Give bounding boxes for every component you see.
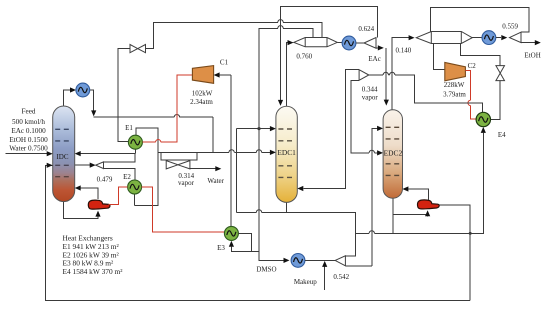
arrow into 0.140 — [409, 35, 415, 40]
wire cooler to 0.624 — [356, 42, 364, 44]
wire EDC2 reboiler return — [408, 189, 428, 200]
svg-text:IDC: IDC — [56, 153, 68, 161]
wire drum reflux to EDC1 feed recycle — [259, 28, 313, 251]
splitter 0.479 — [96, 162, 104, 169]
arrow condensate down — [91, 110, 96, 116]
svg-text:228kW: 228kW — [444, 81, 465, 89]
arrow makeup up — [322, 261, 327, 267]
drum splitter 0.760 — [294, 38, 338, 47]
wire recycle return into IDC — [46, 165, 471, 300]
wire mixer input2 / EDC2 feed — [351, 80, 377, 153]
drum splitter 0.140 — [416, 32, 472, 44]
wire bottoms header y=232.9 — [355, 232, 470, 234]
wire water product — [190, 168, 216, 170]
wire E1 feed branch — [118, 117, 128, 141]
svg-text:C2: C2 — [468, 62, 477, 70]
cooler after 0.760 (blue) — [342, 36, 356, 50]
wire EDC2 vapor riser to 0.140 — [392, 38, 409, 110]
svg-text:vapor: vapor — [178, 179, 195, 187]
arrow into DMSO cooler — [284, 258, 290, 263]
wire 0.140 to cooler2 — [472, 37, 482, 39]
arrow into E3 bottom — [229, 241, 234, 247]
wire C1 suction riser from E3 — [230, 75, 232, 226]
wire 0.140 bottom left to C2 — [434, 44, 445, 70]
svg-text:vapor: vapor — [362, 93, 379, 101]
tray EDC1 1 — [278, 128, 294, 130]
wire V2 vertical x=236.3 — [235, 129, 237, 213]
svg-text:C1: C1 — [220, 58, 229, 66]
tray EDC1 2 — [278, 140, 294, 142]
arrow L1 into EDC1 — [270, 150, 276, 155]
svg-text:EtOH: EtOH — [524, 51, 540, 59]
arrow into IDC reboiler — [95, 211, 100, 217]
node junction 470 — [469, 232, 472, 235]
wire EDC1 bottoms stub — [286, 202, 288, 212]
wire valve to 0.760 drum top — [146, 22, 323, 48]
arrow feed into IDC — [47, 151, 53, 156]
column EDC1 — [276, 106, 297, 202]
column EDC2 — [383, 110, 402, 199]
splitter 0.559 — [510, 32, 522, 42]
svg-text:EAc 0.1000: EAc 0.1000 — [11, 127, 46, 135]
wire IDC overhead to condenser — [64, 90, 75, 107]
arrow into EDC1 right — [297, 186, 303, 191]
valve V1 (IDC overhead) — [130, 45, 146, 53]
svg-text:E4 1584 kW 370 m²: E4 1584 kW 370 m² — [63, 267, 124, 276]
arrow L2 into IDC right — [75, 151, 81, 156]
svg-text:Feed: Feed — [22, 107, 36, 115]
wire mixer input1 from EDC1 return — [303, 70, 359, 189]
arrow into C1 — [214, 72, 220, 77]
arrow EAc — [378, 45, 384, 50]
red wire E1 to C1 — [142, 75, 192, 142]
arrow water — [215, 166, 221, 171]
wire EDC2 reboiler feed — [393, 214, 428, 216]
wire EAc down to EDC2 top — [385, 48, 387, 102]
arrow feed into EDC1 at 127.7 — [270, 126, 276, 131]
svg-text:EtOH 0.1500: EtOH 0.1500 — [9, 136, 48, 144]
wire L1 main feed line to EDC1 — [158, 151, 272, 153]
arrow side draw into 0.479 — [90, 163, 96, 168]
tray IDC 4 — [55, 176, 72, 178]
arrow into EDC2 right — [402, 186, 408, 191]
wire E3 bottom U-route to DMSO line — [231, 246, 283, 260]
reboiler EDC2 (red) — [418, 200, 440, 209]
svg-text:E2: E2 — [123, 173, 131, 181]
cooler after 0.140 (blue) — [482, 31, 496, 45]
column IDC — [53, 106, 75, 202]
tray EDC2 3 — [386, 163, 400, 165]
wire DMSO cooler to 0.542 — [305, 259, 335, 261]
wire 0.559 recycle to 0.140 top — [431, 8, 530, 33]
wire IDC side draw — [75, 164, 91, 166]
svg-text:E3: E3 — [217, 244, 225, 252]
wire 0.344 mixer outlet to E4 top — [369, 75, 483, 112]
svg-text:EDC2: EDC2 — [384, 149, 403, 158]
wire C1 inlet — [216, 74, 232, 76]
wire feed line — [6, 153, 48, 155]
svg-text:Water: Water — [207, 177, 224, 185]
svg-text:DMSO: DMSO — [256, 266, 276, 274]
wire 0.542 bottom output — [345, 265, 371, 267]
wire condensate drop to L1 — [212, 117, 214, 152]
splitter 0.624 — [364, 38, 376, 49]
wire cooler2 to 0.559 — [496, 37, 501, 39]
reboiler IDC (red) — [88, 200, 110, 209]
arrow into EDC2 reboiler — [425, 210, 430, 216]
heater E3 (green) — [224, 226, 238, 240]
heat exchanger E1 — [128, 135, 142, 149]
wire 0.479 top output riser — [104, 154, 136, 162]
svg-text:Makeup: Makeup — [294, 278, 317, 286]
wire EDC2 reboiler line to junction — [439, 205, 470, 234]
wire condensate header y=116.8 — [94, 116, 214, 118]
compressor C1 — [192, 66, 213, 84]
svg-text:3.79atm: 3.79atm — [443, 90, 466, 98]
wire EDC2 bottoms — [392, 198, 394, 233]
tray EDC1 4 — [278, 176, 294, 178]
wire IDC reboiler return — [81, 188, 99, 199]
tray IDC 3 — [55, 164, 72, 166]
svg-text:102kW: 102kW — [192, 90, 213, 98]
wire EDC1 bottoms header y=211.9 — [236, 212, 355, 255]
splitter 0.542 — [335, 256, 345, 266]
wire L2 return into IDC — [80, 153, 135, 155]
svg-text:E4: E4 — [498, 131, 506, 139]
arrow feed EDC2 at 152.9 — [377, 150, 383, 155]
tray EDC2 1 — [386, 126, 400, 128]
wire 0.140 bottom right to valve — [461, 44, 501, 66]
tray IDC 2 — [55, 140, 72, 142]
tray IDC 1 — [55, 128, 72, 130]
wire E4 bottom to junction — [470, 133, 483, 234]
tray EDC1 3 — [278, 165, 294, 167]
compressor C2 — [445, 62, 466, 80]
svg-text:0.479: 0.479 — [97, 175, 113, 183]
wire junction down to recycle — [469, 233, 471, 300]
red wire C2 to E4 — [465, 70, 476, 119]
heat exchanger E2 — [128, 180, 142, 194]
wire 0.542 top output — [345, 233, 355, 255]
arrow reboiler return into IDC — [75, 185, 81, 190]
heater E4 (green) — [476, 112, 490, 126]
wire condenser outlet down — [90, 90, 94, 111]
arrow solvent into EDC1 top — [278, 100, 283, 106]
wire solvent return to EDC1 top — [281, 6, 378, 101]
svg-text:EAc: EAc — [368, 55, 380, 63]
arrow into 0.760 drum — [288, 40, 294, 45]
tray EDC2 4 — [386, 174, 400, 176]
wire valve riser left — [118, 49, 130, 118]
wire valve to E4 right — [490, 81, 500, 120]
wire drum to cooler — [337, 42, 342, 44]
svg-text:0.624: 0.624 — [358, 25, 374, 33]
valve V3 (vertical, on E4 line) — [496, 66, 505, 81]
arrow into E4 bottom — [481, 127, 486, 133]
mixer 0.344 — [359, 70, 369, 81]
svg-text:0.542: 0.542 — [333, 273, 349, 281]
wire E1 bottom stub — [134, 149, 136, 153]
arrow feed EDC2 at 128.4 — [377, 126, 383, 131]
wire EtOH product — [521, 42, 535, 44]
arrow solvent into EDC2 top — [384, 100, 389, 106]
svg-text:0.760: 0.760 — [296, 52, 312, 60]
valve assembly 0.314 frame — [161, 152, 197, 160]
wire IDC bottoms to reboiler — [63, 201, 98, 218]
wire makeup — [324, 266, 326, 290]
wire EDC1 vapor riser — [286, 43, 289, 107]
wire 0.479 bottom to E2 top — [104, 169, 135, 181]
svg-text:500 kmol/h: 500 kmol/h — [12, 118, 45, 126]
svg-text:0.140: 0.140 — [396, 47, 412, 55]
svg-text:E1: E1 — [125, 124, 133, 132]
wire EDC1 feed y=127.7 — [236, 128, 272, 130]
wire EDC2 feed at 128.4 from 0.542 — [372, 128, 378, 265]
svg-text:0.344: 0.344 — [362, 86, 378, 94]
arrow EtOH — [535, 40, 541, 45]
node EDC1 feed junction — [257, 127, 260, 130]
wire E3 right outlet — [238, 233, 251, 251]
tray EDC2 2 — [386, 138, 400, 140]
condenser IDC (blue) — [76, 83, 90, 97]
arrow into 0.559 — [501, 35, 507, 40]
red wire IDC reboiler to E2 — [109, 187, 128, 205]
svg-text:2.34atm: 2.34atm — [190, 98, 213, 106]
svg-text:Water 0.7500: Water 0.7500 — [9, 144, 48, 152]
arrow into condenser — [70, 87, 76, 92]
wire 0.624 bottom EAc — [376, 47, 378, 49]
valve 0.314 bowtie — [166, 161, 190, 169]
cooler DMSO (blue) — [291, 254, 305, 268]
svg-text:0.559: 0.559 — [502, 23, 518, 31]
wire E1 top outlet loop to E2 bottom — [135, 128, 159, 205]
arrow recycle into IDC — [47, 163, 53, 168]
red wire E2 to E3 — [142, 187, 225, 232]
svg-text:EDC1: EDC1 — [277, 148, 296, 157]
